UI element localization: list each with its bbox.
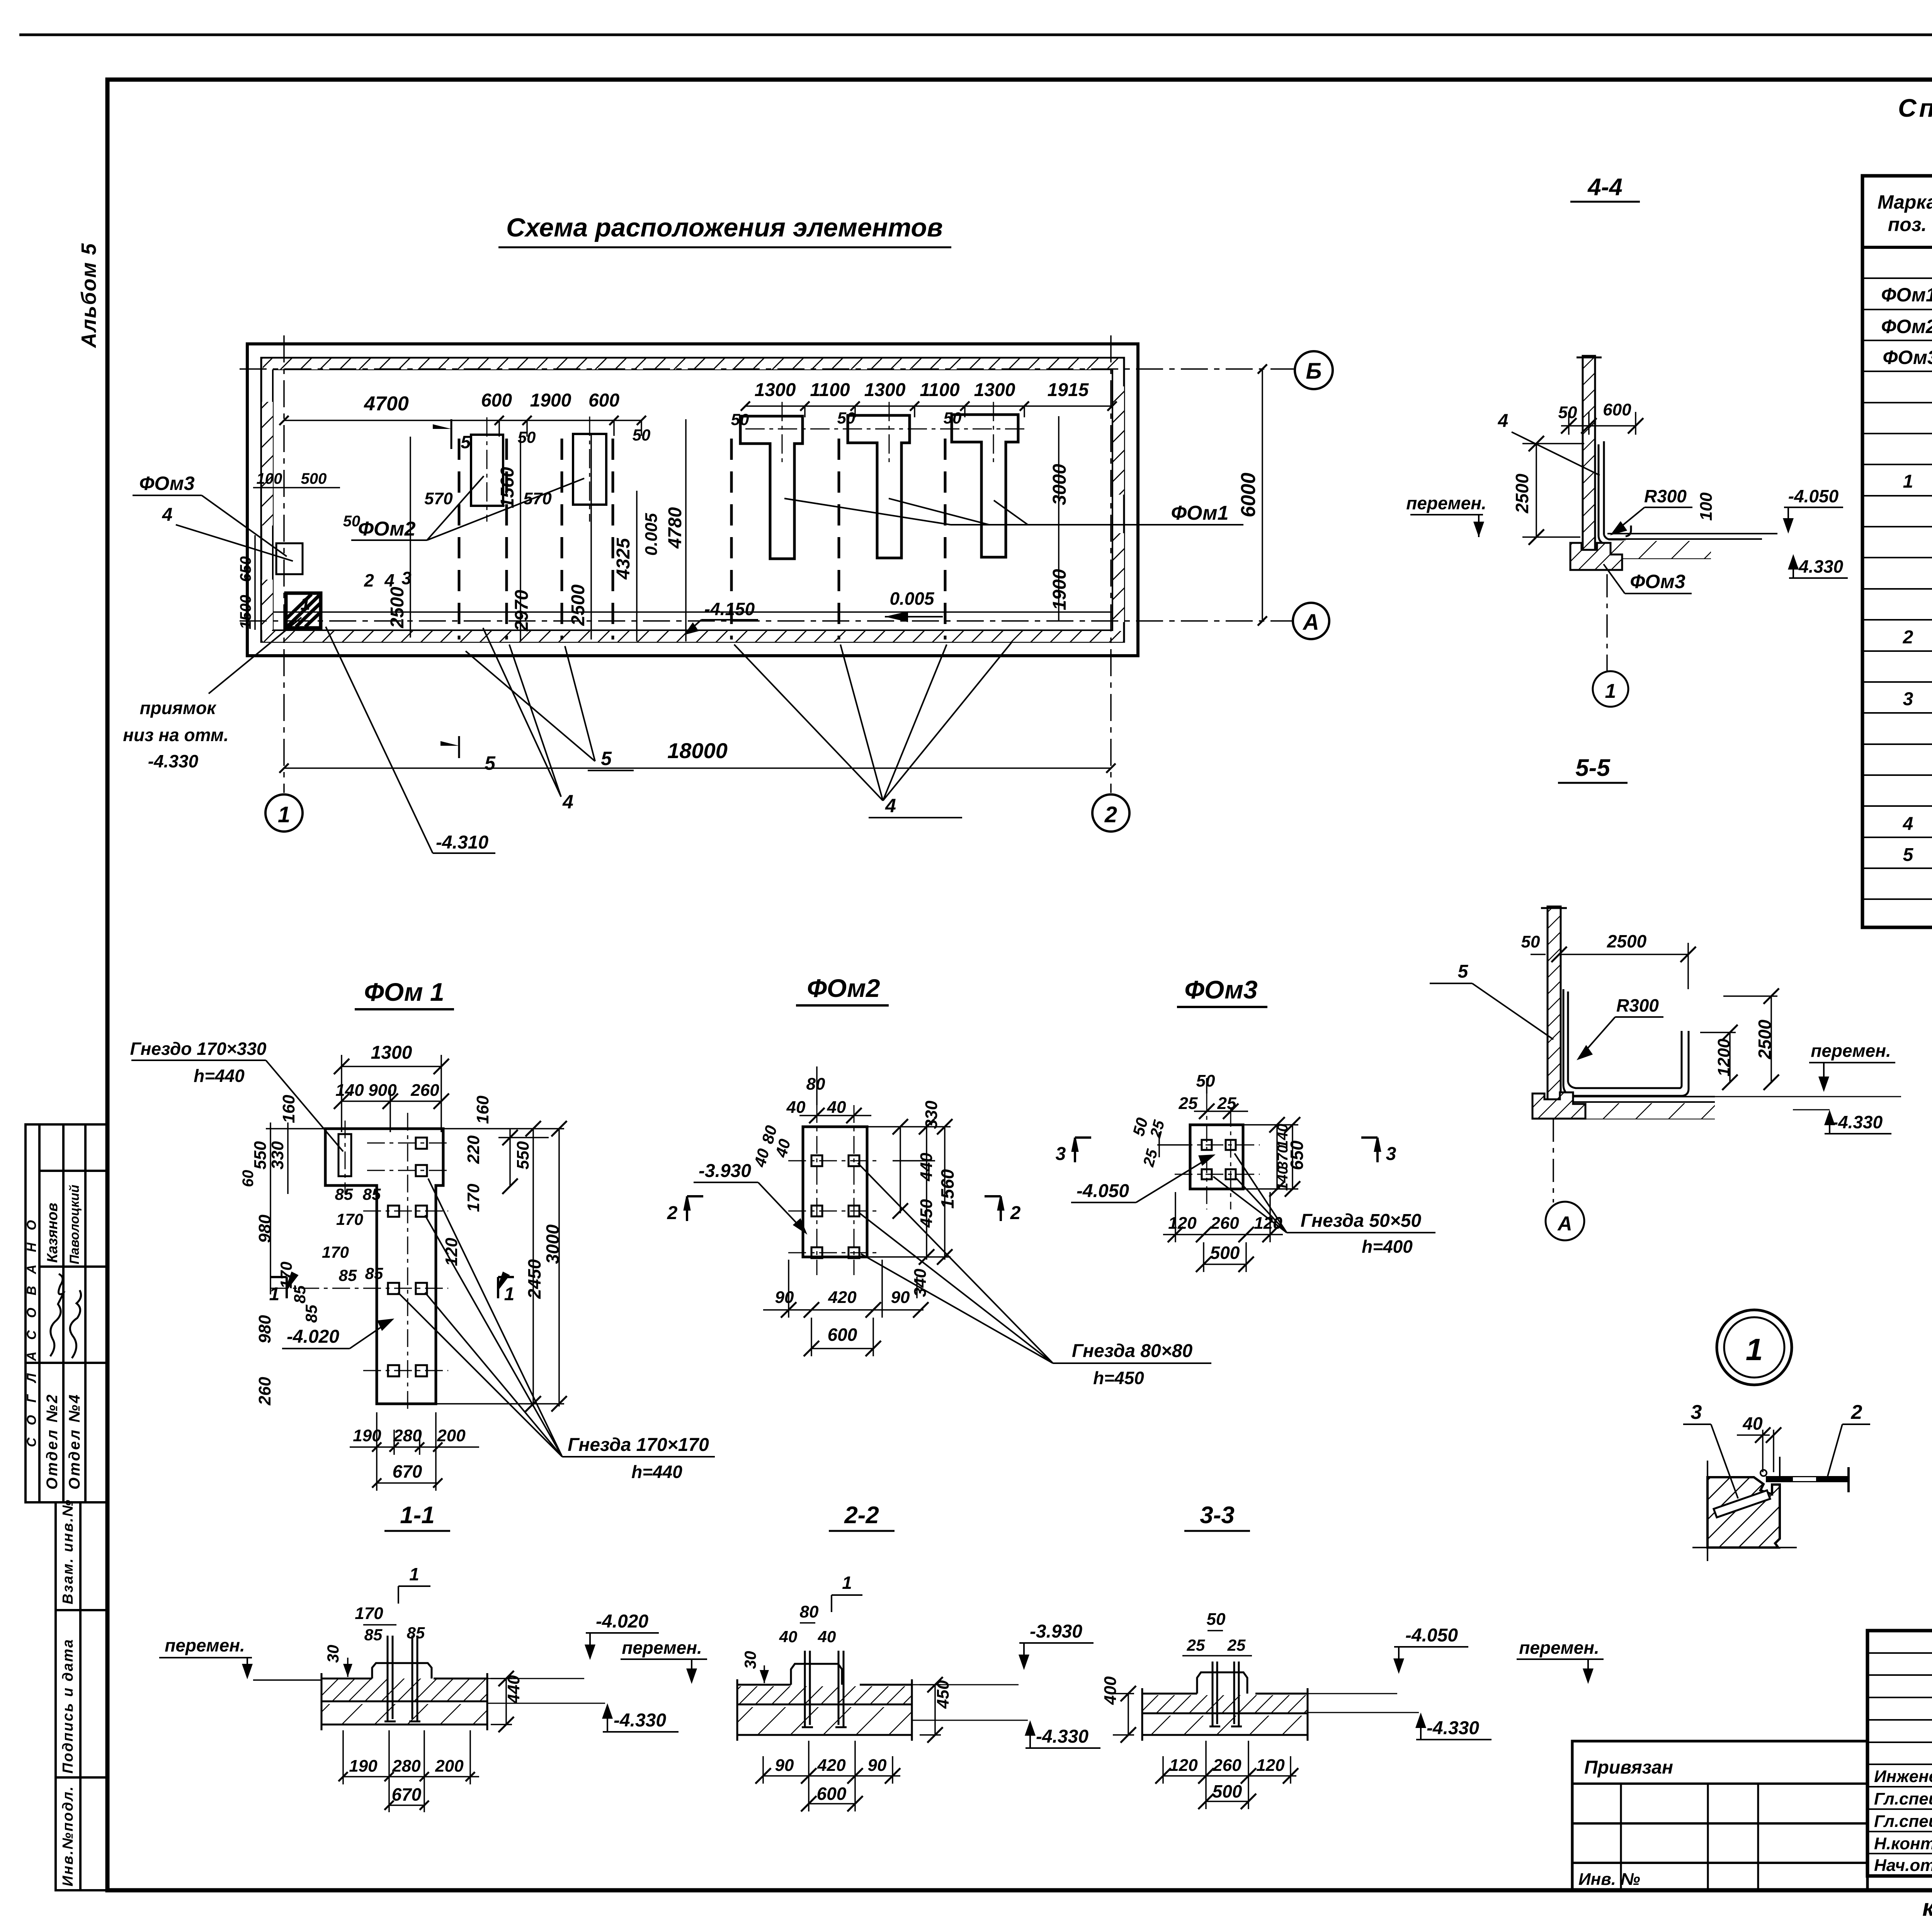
svg-text:-4.050: -4.050 [1788, 486, 1839, 506]
svg-text:25: 25 [1187, 1636, 1205, 1654]
svg-text:2970: 2970 [512, 590, 532, 631]
svg-text:ФОм3: ФОм3 [139, 473, 195, 494]
svg-text:Альбом 5: Альбом 5 [77, 243, 100, 349]
svg-text:650: 650 [237, 556, 254, 582]
svg-text:85: 85 [335, 1185, 353, 1203]
svg-text:260: 260 [1213, 1756, 1242, 1775]
svg-text:h=440: h=440 [194, 1066, 245, 1086]
svg-text:120: 120 [1169, 1756, 1198, 1775]
svg-text:200: 200 [435, 1757, 464, 1776]
svg-text:50: 50 [731, 410, 749, 429]
svg-text:50: 50 [1521, 932, 1540, 951]
svg-text:85: 85 [363, 1185, 381, 1203]
svg-text:670: 670 [393, 1461, 422, 1481]
svg-text:5: 5 [1458, 961, 1469, 982]
svg-text:160: 160 [279, 1095, 298, 1123]
svg-text:170: 170 [336, 1210, 363, 1228]
svg-text:ФОм1: ФОм1 [1881, 284, 1932, 306]
svg-text:160: 160 [473, 1095, 492, 1124]
svg-text:170: 170 [355, 1604, 383, 1623]
svg-text:3: 3 [1903, 689, 1913, 709]
svg-text:1100: 1100 [920, 380, 960, 400]
svg-text:25: 25 [1179, 1094, 1198, 1113]
svg-text:550: 550 [251, 1141, 270, 1170]
svg-text:85: 85 [291, 1285, 309, 1303]
svg-text:3000: 3000 [1049, 464, 1070, 505]
svg-text:2500: 2500 [1512, 473, 1532, 514]
svg-text:4: 4 [384, 570, 395, 590]
svg-text:40: 40 [786, 1098, 806, 1117]
svg-text:-4.330: -4.330 [148, 751, 199, 771]
svg-text:ФОм2: ФОм2 [807, 974, 880, 1002]
svg-text:3: 3 [1691, 1401, 1702, 1423]
svg-text:140: 140 [335, 1081, 364, 1100]
svg-text:5: 5 [461, 432, 471, 452]
svg-text:R300: R300 [1644, 486, 1687, 506]
svg-text:копировал: копировал [1922, 1895, 1932, 1921]
svg-text:600: 600 [828, 1325, 857, 1345]
svg-text:Гнездо 170×330: Гнездо 170×330 [130, 1039, 267, 1059]
svg-text:170: 170 [464, 1184, 483, 1212]
svg-text:50: 50 [633, 426, 651, 444]
svg-text:5-5: 5-5 [1575, 755, 1611, 781]
svg-text:Нач.отд.: Нач.отд. [1874, 1856, 1932, 1875]
svg-text:1300: 1300 [371, 1043, 412, 1063]
svg-text:40: 40 [779, 1628, 798, 1646]
svg-text:2-2: 2-2 [844, 1502, 879, 1529]
svg-text:1: 1 [1605, 680, 1616, 702]
svg-text:330: 330 [922, 1100, 941, 1129]
svg-text:3-3: 3-3 [1200, 1502, 1235, 1529]
svg-text:600: 600 [817, 1784, 847, 1804]
svg-text:-4.330: -4.330 [1793, 556, 1844, 577]
svg-text:600: 600 [481, 390, 512, 411]
svg-text:2500: 2500 [568, 584, 588, 626]
svg-text:-4.330: -4.330 [1427, 1718, 1479, 1738]
svg-text:1-1: 1-1 [400, 1502, 435, 1529]
svg-text:СОГЛАСОВАНО: СОГЛАСОВАНО [24, 1208, 39, 1447]
svg-text:40: 40 [827, 1098, 846, 1117]
svg-text:перемен.: перемен. [1519, 1638, 1599, 1658]
svg-text:50: 50 [518, 428, 536, 446]
svg-text:280: 280 [393, 1426, 422, 1445]
svg-text:25: 25 [1217, 1094, 1236, 1113]
svg-text:0.005: 0.005 [889, 588, 935, 609]
svg-text:190: 190 [353, 1426, 381, 1445]
svg-text:1: 1 [269, 1284, 280, 1304]
svg-text:500: 500 [1213, 1781, 1242, 1801]
svg-text:220: 220 [464, 1135, 483, 1164]
svg-text:Отдел №2: Отдел №2 [44, 1393, 61, 1490]
svg-text:А: А [1557, 1213, 1572, 1235]
svg-text:550: 550 [514, 1141, 532, 1170]
svg-text:Гл.спец.: Гл.спец. [1874, 1812, 1932, 1831]
svg-text:1: 1 [1903, 471, 1913, 492]
svg-text:ФОм3: ФОм3 [1630, 571, 1685, 592]
svg-text:4: 4 [885, 795, 896, 816]
svg-text:4: 4 [1903, 814, 1913, 834]
svg-text:570: 570 [424, 489, 453, 508]
svg-text:Казянов: Казянов [44, 1203, 61, 1263]
svg-text:Б: Б [1306, 359, 1321, 384]
svg-text:85: 85 [364, 1626, 383, 1644]
svg-text:420: 420 [817, 1756, 846, 1775]
svg-text:100: 100 [1697, 492, 1716, 521]
svg-text:18000: 18000 [667, 738, 728, 763]
svg-text:1300: 1300 [864, 380, 906, 400]
svg-text:400: 400 [1101, 1676, 1120, 1705]
svg-text:ФОм3: ФОм3 [1184, 975, 1257, 1004]
svg-text:3: 3 [1056, 1144, 1066, 1164]
svg-text:ФОм1: ФОм1 [1171, 502, 1228, 524]
svg-text:низ на отм.: низ на отм. [123, 725, 228, 745]
svg-text:200: 200 [437, 1426, 466, 1445]
svg-text:25: 25 [1227, 1636, 1246, 1654]
svg-text:Схема расположения элементов: Схема расположения элементов [506, 213, 943, 242]
svg-text:Гл.спец.: Гл.спец. [1874, 1789, 1932, 1808]
svg-text:Инв.№подл.: Инв.№подл. [60, 1786, 76, 1886]
svg-text:280: 280 [392, 1757, 421, 1776]
svg-text:Н.контр.: Н.контр. [1874, 1834, 1932, 1853]
svg-text:30: 30 [741, 1651, 759, 1669]
svg-text:5: 5 [601, 748, 612, 769]
svg-text:90: 90 [775, 1756, 794, 1775]
svg-text:330: 330 [268, 1141, 287, 1170]
svg-text:1: 1 [278, 802, 290, 827]
svg-text:5: 5 [485, 752, 496, 774]
svg-text:Взам. инв.№: Взам. инв.№ [60, 1499, 76, 1604]
svg-text:4700: 4700 [364, 393, 409, 415]
svg-text:перемен.: перемен. [1406, 493, 1486, 513]
svg-text:2450: 2450 [524, 1259, 544, 1299]
svg-text:440: 440 [504, 1675, 523, 1704]
svg-text:5: 5 [1903, 845, 1914, 865]
svg-text:3: 3 [1386, 1144, 1396, 1164]
svg-text:2: 2 [667, 1203, 678, 1223]
svg-text:670: 670 [392, 1784, 422, 1804]
svg-text:R300: R300 [1616, 995, 1659, 1015]
svg-text:2: 2 [364, 570, 374, 590]
svg-text:4: 4 [562, 791, 573, 813]
svg-text:приямок: приямок [140, 698, 217, 718]
svg-text:980: 980 [255, 1214, 274, 1243]
svg-text:-4.330: -4.330 [1832, 1112, 1883, 1132]
svg-text:Паволоцкий: Паволоцкий [67, 1185, 82, 1264]
svg-text:-4.050: -4.050 [1405, 1625, 1458, 1646]
svg-text:1: 1 [504, 1284, 515, 1304]
svg-text:85: 85 [339, 1266, 357, 1284]
svg-text:1: 1 [1746, 1332, 1763, 1367]
svg-text:500: 500 [301, 470, 327, 487]
svg-text:600: 600 [588, 390, 619, 411]
svg-text:40: 40 [1742, 1413, 1763, 1434]
svg-text:260: 260 [410, 1081, 439, 1100]
svg-text:перемен.: перемен. [165, 1635, 245, 1655]
svg-text:80: 80 [800, 1602, 819, 1621]
svg-text:А: А [1302, 610, 1319, 635]
svg-text:ФОм2: ФОм2 [1881, 316, 1932, 337]
svg-text:2500: 2500 [387, 587, 408, 628]
svg-text:260: 260 [255, 1377, 274, 1406]
svg-text:h=440: h=440 [631, 1462, 682, 1482]
svg-text:перемен.: перемен. [1811, 1041, 1891, 1061]
svg-text:40: 40 [818, 1628, 836, 1646]
svg-text:50: 50 [944, 409, 962, 427]
svg-text:980: 980 [255, 1315, 274, 1344]
svg-text:40: 40 [750, 1147, 773, 1169]
svg-text:-4.150: -4.150 [704, 599, 755, 619]
svg-text:Отдел №4: Отдел №4 [66, 1393, 83, 1490]
svg-text:-4.050: -4.050 [1077, 1181, 1129, 1201]
svg-text:Спецификация к схеме: Спецификация к схеме расположения [1898, 94, 1932, 122]
svg-text:25: 25 [1140, 1147, 1161, 1169]
svg-text:90: 90 [868, 1756, 887, 1775]
svg-text:450: 450 [917, 1199, 936, 1228]
svg-text:1560: 1560 [937, 1169, 957, 1209]
svg-text:4780: 4780 [665, 507, 685, 549]
svg-text:Привязан: Привязан [1584, 1757, 1673, 1778]
svg-text:4: 4 [162, 505, 173, 525]
svg-text:ФОм 1: ФОм 1 [364, 978, 444, 1006]
svg-text:190: 190 [349, 1757, 378, 1776]
svg-text:h=400: h=400 [1362, 1236, 1413, 1257]
svg-text:-3.930: -3.930 [699, 1161, 751, 1181]
svg-text:Гнезда 170×170: Гнезда 170×170 [568, 1435, 709, 1455]
svg-text:85: 85 [302, 1304, 320, 1323]
svg-text:600: 600 [1603, 400, 1631, 419]
svg-text:50: 50 [1207, 1610, 1226, 1629]
svg-text:-4.330: -4.330 [614, 1710, 666, 1731]
svg-text:Подпись и дата: Подпись и дата [60, 1638, 76, 1774]
svg-text:260: 260 [1210, 1214, 1239, 1233]
svg-text:1200: 1200 [1714, 1039, 1733, 1077]
svg-text:-4.020: -4.020 [287, 1327, 339, 1347]
svg-text:Марка: Марка [1878, 191, 1932, 213]
svg-text:420: 420 [828, 1288, 857, 1307]
svg-text:Гнезда 50×50: Гнезда 50×50 [1301, 1211, 1422, 1231]
svg-text:1100: 1100 [810, 380, 850, 400]
svg-text:50: 50 [1558, 403, 1577, 422]
svg-text:-3.930: -3.930 [1030, 1621, 1082, 1642]
svg-text:30: 30 [324, 1645, 342, 1663]
svg-text:2: 2 [1104, 802, 1117, 827]
svg-text:1300: 1300 [974, 380, 1015, 400]
svg-text:440: 440 [917, 1153, 936, 1182]
svg-text:2: 2 [1903, 627, 1913, 648]
svg-text:2: 2 [1851, 1401, 1862, 1423]
svg-text:85: 85 [365, 1264, 383, 1282]
svg-text:ФОм2: ФОм2 [358, 518, 415, 540]
svg-text:1300: 1300 [755, 380, 796, 400]
svg-text:100: 100 [257, 470, 282, 487]
svg-text:170: 170 [322, 1243, 349, 1261]
svg-text:2500: 2500 [1755, 1019, 1775, 1060]
svg-text:Гнезда 80×80: Гнезда 80×80 [1072, 1341, 1193, 1361]
svg-text:50: 50 [837, 409, 855, 427]
svg-text:4-4: 4-4 [1587, 174, 1622, 201]
svg-text:900: 900 [368, 1081, 397, 1100]
svg-text:3000: 3000 [543, 1224, 563, 1264]
svg-text:80: 80 [806, 1075, 825, 1094]
svg-text:2: 2 [1010, 1203, 1021, 1223]
svg-text:2500: 2500 [1607, 931, 1647, 951]
svg-text:-4.310: -4.310 [436, 832, 488, 853]
svg-text:1900: 1900 [1049, 569, 1070, 610]
svg-text:1500: 1500 [237, 595, 254, 629]
svg-text:90: 90 [891, 1288, 910, 1307]
svg-text:6000: 6000 [1237, 473, 1260, 517]
svg-text:4: 4 [1498, 411, 1509, 431]
svg-text:50: 50 [343, 513, 361, 530]
svg-text:0.005: 0.005 [642, 513, 661, 556]
svg-text:500: 500 [1210, 1243, 1240, 1263]
svg-text:4325: 4325 [613, 537, 634, 580]
svg-text:-4.330: -4.330 [1036, 1726, 1088, 1747]
svg-text:ФОм3: ФОм3 [1883, 347, 1932, 368]
svg-text:Инженер: Инженер [1874, 1767, 1932, 1786]
svg-text:50: 50 [1196, 1071, 1215, 1090]
svg-text:1560: 1560 [497, 467, 518, 508]
svg-text:85: 85 [407, 1624, 425, 1642]
svg-text:-4.020: -4.020 [596, 1611, 648, 1632]
svg-text:3: 3 [401, 568, 412, 588]
svg-text:1: 1 [842, 1573, 852, 1593]
svg-text:120: 120 [1168, 1214, 1197, 1233]
svg-text:Инв. №: Инв. № [1578, 1870, 1640, 1889]
svg-text:1900: 1900 [530, 390, 571, 411]
svg-text:650: 650 [1287, 1140, 1307, 1170]
svg-text:h=450: h=450 [1093, 1368, 1144, 1388]
svg-text:поз.: поз. [1888, 214, 1927, 235]
svg-text:1: 1 [409, 1564, 419, 1584]
svg-text:60: 60 [240, 1170, 257, 1187]
svg-text:340: 340 [911, 1269, 930, 1297]
svg-text:1915: 1915 [1048, 380, 1089, 400]
svg-text:90: 90 [775, 1288, 794, 1307]
svg-text:120: 120 [1256, 1756, 1285, 1775]
svg-text:перемен.: перемен. [622, 1638, 702, 1658]
